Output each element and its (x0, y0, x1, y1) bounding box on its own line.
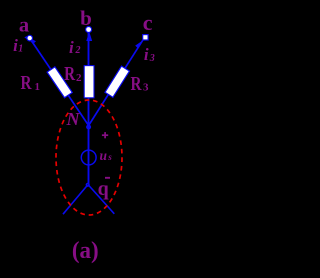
svg-text:i: i (69, 38, 74, 57)
svg-text:q: q (98, 178, 109, 200)
current arrow i2 on branch 2 (86, 32, 92, 42)
svg-text:u: u (100, 148, 108, 163)
svg-text:a: a (19, 15, 29, 37)
terminal c (143, 35, 148, 40)
wire: node q to bottom-right (88, 185, 114, 214)
wire: node N down through source to node q (88, 126, 90, 185)
svg-text:i: i (144, 45, 149, 64)
svg-text:(a): (a) (72, 237, 99, 264)
svg-text:3: 3 (149, 53, 155, 64)
terminal a (27, 35, 33, 41)
svg-text:2: 2 (76, 72, 82, 84)
svg-text:R: R (131, 73, 142, 95)
wire R3 branch: terminal c to node N (89, 40, 143, 125)
wire R2 branch: terminal b to node N (88, 30, 90, 126)
current arrow i3 on branch 3 (135, 40, 143, 49)
wire: node q to bottom-left (63, 185, 88, 214)
svg-text:1: 1 (18, 44, 23, 55)
svg-text:b: b (80, 6, 92, 30)
resistor R2 body (84, 66, 94, 98)
plus sign of source (102, 132, 108, 138)
svg-text:R: R (64, 63, 75, 85)
svg-text:2: 2 (75, 45, 81, 56)
resistor R1 body (47, 67, 72, 98)
terminal b (86, 27, 92, 33)
svg-text:N: N (66, 109, 81, 129)
minus sign of source (105, 177, 110, 179)
dashed red boundary ellipse (56, 100, 122, 215)
node q junction dot (86, 183, 89, 186)
node N junction dot (87, 125, 90, 128)
svg-text:R: R (21, 72, 32, 94)
svg-text:3: 3 (143, 81, 149, 93)
voltage source us circle (81, 150, 96, 165)
current arrow i1 on branch 1 (26, 36, 36, 44)
wire R1 branch: terminal a to node N (30, 38, 89, 125)
arrow i1 tip poking past terminal a (24, 36, 28, 41)
svg-text:1: 1 (35, 81, 41, 93)
svg-text:c: c (143, 10, 153, 35)
resistor R3 body (105, 66, 130, 97)
svg-text:s: s (107, 152, 112, 162)
